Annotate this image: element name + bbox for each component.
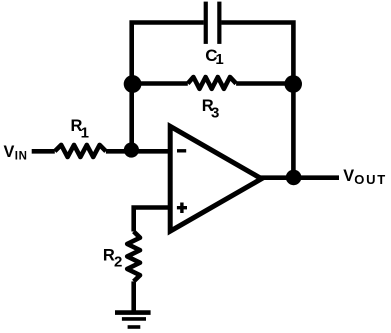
resistor R2 bbox=[127, 232, 140, 282]
svg-text:V: V bbox=[343, 167, 354, 185]
wire noninverting input row and R2 top corner bbox=[134, 208, 172, 232]
node: output junction bbox=[286, 170, 302, 186]
svg-text:2: 2 bbox=[114, 254, 122, 271]
wire top-left: left vertical rail and top wire to capacitor left plate bbox=[132, 23, 204, 151]
wire top-right: from capacitor right plate along top and down right rail to output node bbox=[221, 23, 293, 178]
resistor R1 bbox=[55, 145, 106, 157]
label R3 bbox=[202, 97, 220, 121]
ground bbox=[115, 313, 151, 327]
wire R2 to ground bbox=[131, 281, 136, 311]
svg-text:IN: IN bbox=[15, 150, 28, 162]
wire from R1 to inverting input bbox=[106, 149, 172, 154]
svg-text:1: 1 bbox=[215, 51, 223, 68]
label C1 bbox=[205, 46, 223, 68]
svg-text:OUT: OUT bbox=[354, 172, 387, 187]
svg-text:V: V bbox=[4, 143, 15, 161]
wire R3 row right segment bbox=[236, 81, 293, 86]
node: feedback left junction bbox=[124, 75, 142, 93]
node: inverting input junction bbox=[124, 142, 139, 157]
label R2 bbox=[103, 246, 122, 270]
capacitor C1 bbox=[206, 2, 220, 44]
label R1 bbox=[71, 117, 89, 141]
op-amp minus sign bbox=[177, 149, 186, 152]
wire VIN lead bbox=[32, 149, 55, 154]
wire R3 row left segment bbox=[132, 81, 188, 86]
op-amp U1 bbox=[170, 126, 261, 231]
wire output row bbox=[259, 175, 339, 180]
node: feedback right junction bbox=[284, 75, 302, 93]
svg-text:3: 3 bbox=[211, 104, 219, 121]
svg-text:1: 1 bbox=[81, 124, 89, 141]
op-amp plus sign bbox=[177, 203, 187, 214]
label VIN bbox=[4, 143, 28, 163]
label VOUT bbox=[343, 167, 387, 187]
resistor R3 bbox=[188, 77, 236, 89]
